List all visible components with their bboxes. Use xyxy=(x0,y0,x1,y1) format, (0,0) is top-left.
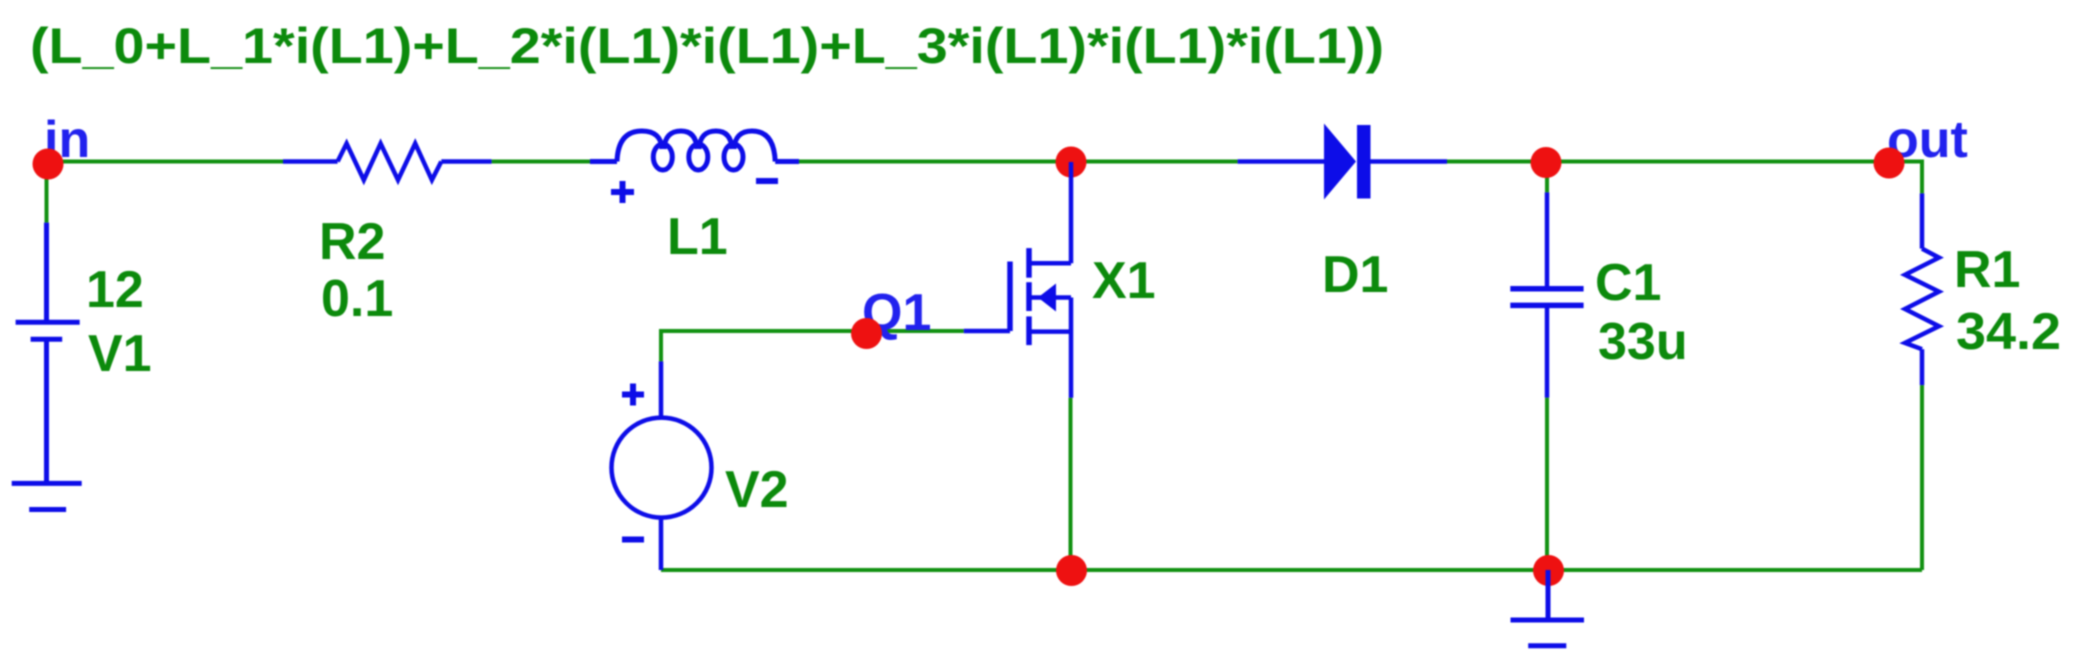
wire V1 top stub xyxy=(45,164,49,223)
node Q1 dot xyxy=(851,318,882,349)
node junction top center dot xyxy=(1056,147,1087,178)
ground C1 xyxy=(1511,570,1585,646)
inductor L1 xyxy=(590,131,799,170)
gate wire xyxy=(661,329,964,333)
bottom rail xyxy=(661,568,1922,572)
wire mosfet source bottom xyxy=(1069,398,1073,570)
wire D1 to out corner and down xyxy=(1447,162,1922,194)
svg-text:C1: C1 xyxy=(1595,254,1661,312)
L1 minus sign xyxy=(756,178,778,184)
svg-text:34.2: 34.2 xyxy=(1956,303,2061,361)
wire C1 bottom xyxy=(1545,398,1549,570)
wire V2 top stub xyxy=(659,329,663,361)
diode D1 xyxy=(1324,124,1371,200)
svg-text:12: 12 xyxy=(86,261,144,319)
svg-text:R2: R2 xyxy=(319,213,385,271)
svg-text:(L_0+L_1*i(L1)+L_2*i(L1)*i(L1): (L_0+L_1*i(L1)+L_2*i(L1)*i(L1)+L_3*i(L1)… xyxy=(30,18,1384,74)
node in dot xyxy=(33,149,64,180)
node C1 top dot xyxy=(1531,147,1562,178)
ground V1 xyxy=(12,483,82,509)
X1 body arrow xyxy=(1038,284,1056,312)
svg-text:X1: X1 xyxy=(1092,252,1156,310)
svg-text:L1: L1 xyxy=(667,208,728,266)
svg-text:V1: V1 xyxy=(88,325,152,383)
node source bottom dot xyxy=(1056,555,1087,586)
svg-text:D1: D1 xyxy=(1322,246,1388,304)
wire C1 top stub xyxy=(1545,163,1549,192)
wire top rail left xyxy=(48,160,283,164)
node out dot xyxy=(1874,148,1905,179)
svg-text:0.1: 0.1 xyxy=(321,270,393,328)
wire below R1 xyxy=(1920,385,1924,570)
L1 plus sign xyxy=(611,181,634,203)
svg-text:33u: 33u xyxy=(1598,313,1688,371)
V2 plus sign xyxy=(622,384,644,406)
svg-text:R1: R1 xyxy=(1954,241,2020,299)
mosfet drain lead xyxy=(1069,162,1074,263)
capacitor C1 xyxy=(1510,192,1583,397)
svg-text:V2: V2 xyxy=(725,461,789,519)
node C1 bottom dot xyxy=(1533,555,1564,586)
V2 minus sign xyxy=(622,537,644,543)
wire between R2 and L1 xyxy=(492,160,590,164)
voltage source V2 xyxy=(612,361,712,570)
wire between L1 and D1 xyxy=(799,160,1238,164)
resistor R2 xyxy=(283,144,492,181)
transistor X1 (nmos) xyxy=(964,248,1071,398)
voltage source V1 (battery) xyxy=(16,223,80,484)
resistor R1 xyxy=(1905,193,1939,385)
